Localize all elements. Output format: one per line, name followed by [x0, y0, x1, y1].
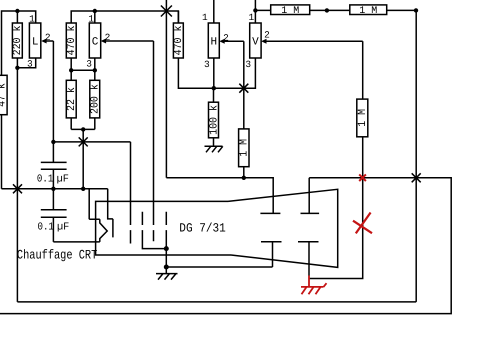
svg-text:1 M: 1 M [281, 6, 299, 17]
wire right vertical x416 [415, 10, 417, 302]
resistor 470 k (second) [173, 11, 183, 58]
wire upper right plate lead [308, 178, 310, 214]
svg-text:Chauffage CRT: Chauffage CRT [17, 248, 98, 263]
deflection plate lower left with lead [166, 242, 281, 267]
red annotation: ground added at lower right plate [301, 276, 327, 295]
deflection plate lower right with lead [298, 242, 319, 276]
capacitor 0.1 uF (upper) [41, 142, 67, 189]
pin labels V [245, 12, 270, 70]
wire node between 470k and C pin3 [71, 69, 95, 71]
resistor 1 M (top horizontal, first) [271, 5, 310, 15]
svg-text:1: 1 [88, 13, 94, 24]
svg-text:470 k: 470 k [173, 25, 185, 55]
wire top rail left (node A) [2, 11, 36, 75]
wire top rail 2 [71, 11, 178, 23]
wire heater node W1 [2, 188, 108, 190]
deflection plate upper left [260, 212, 280, 214]
grid electrode 2 (dashed, to ground link) [142, 212, 166, 249]
capacitor 0.1 uF (lower) [41, 189, 67, 242]
svg-text:C: C [92, 36, 99, 48]
wire left rail lower part [1, 115, 3, 189]
svg-text:3: 3 [27, 58, 33, 69]
resistor 100 k [209, 88, 219, 146]
potentiometer V [250, 0, 363, 58]
svg-text:V: V [252, 36, 259, 48]
svg-text:2: 2 [105, 32, 111, 43]
svg-text:2: 2 [264, 30, 270, 41]
resistor 1 M (H branch, vertical) [239, 88, 249, 178]
svg-text:3: 3 [245, 59, 251, 70]
svg-text:3: 3 [86, 58, 92, 69]
wire divider tap down x83 [82, 129, 84, 188]
electrode 4 and ground column x166 [165, 212, 167, 274]
wire divider bottom [71, 128, 95, 130]
resistor 47 k (clipped at left edge) [0, 75, 7, 114]
svg-text:2: 2 [223, 32, 229, 43]
wire heater top lead [89, 189, 100, 219]
wire cathode bias vertical x17 [16, 68, 18, 302]
svg-text:1 M: 1 M [357, 109, 369, 127]
svg-text:1 M: 1 M [239, 139, 251, 157]
svg-text:3: 3 [204, 59, 210, 70]
svg-text:µF: µF [57, 222, 69, 234]
potentiometer L [17, 23, 53, 68]
wire H wiper down [243, 41, 245, 88]
deflection plate upper right [301, 212, 320, 214]
wire 1M rail top [255, 9, 416, 11]
wire heater bottom lead [53, 241, 99, 243]
pin labels C [86, 13, 110, 69]
svg-text:47 k: 47 k [0, 83, 9, 107]
resistor 200 k [90, 70, 100, 129]
heater filament chevron [100, 219, 107, 242]
resistor 470 k (first) [66, 23, 76, 70]
wire x166 to top edge and seg1 to left H plate [166, 0, 273, 213]
svg-text:100 k: 100 k [208, 105, 220, 135]
svg-text:470 k: 470 k [66, 25, 78, 55]
wire L wiper down [52, 41, 54, 142]
wire pots common W88 [178, 58, 255, 88]
pin labels H [202, 12, 229, 70]
wire cathode feed and cathode bar [108, 189, 113, 238]
resistor 22 k [66, 70, 76, 129]
wire seg2 upper right plate to bottom rail [0, 178, 451, 314]
focus electrode 3 (from C wiper) [153, 41, 155, 241]
potentiometer C [89, 11, 153, 70]
red annotation: big X on V wire [353, 213, 372, 234]
resistor 1 M (V branch, vertical) [357, 41, 368, 137]
svg-text:H: H [210, 36, 217, 48]
svg-text:2: 2 [45, 32, 51, 43]
svg-text:0.1: 0.1 [37, 174, 53, 186]
svg-text:1: 1 [202, 12, 208, 23]
svg-text:DG 7/31: DG 7/31 [179, 221, 226, 235]
svg-text:1: 1 [29, 13, 35, 24]
pin labels L [27, 13, 51, 69]
svg-text:L: L [32, 36, 39, 48]
red annotation: small X at seg2 crossing [359, 174, 366, 181]
svg-text:22 k: 22 k [66, 87, 78, 111]
wire V plate feed down and left [310, 137, 363, 279]
ground (100k) [205, 146, 223, 152]
wire grid node W2 [53, 141, 130, 143]
potentiometer H [208, 0, 244, 88]
CRT envelope DG 7/31 [96, 189, 338, 267]
svg-text:0.1: 0.1 [38, 222, 54, 234]
crossing X markers (black) [13, 6, 421, 194]
svg-text:µF: µF [57, 174, 69, 186]
svg-text:220 k: 220 k [12, 25, 24, 55]
ground (gun) [156, 274, 178, 280]
resistor 1 M (top horizontal, second) [350, 5, 387, 15]
svg-text:1: 1 [248, 12, 254, 23]
svg-text:200 k: 200 k [90, 84, 102, 114]
wire bottom rail 2 [17, 301, 416, 303]
grid electrode 1 (from W2) [130, 142, 132, 244]
svg-text:1 M: 1 M [359, 6, 377, 17]
resistor 220 k [12, 11, 22, 68]
